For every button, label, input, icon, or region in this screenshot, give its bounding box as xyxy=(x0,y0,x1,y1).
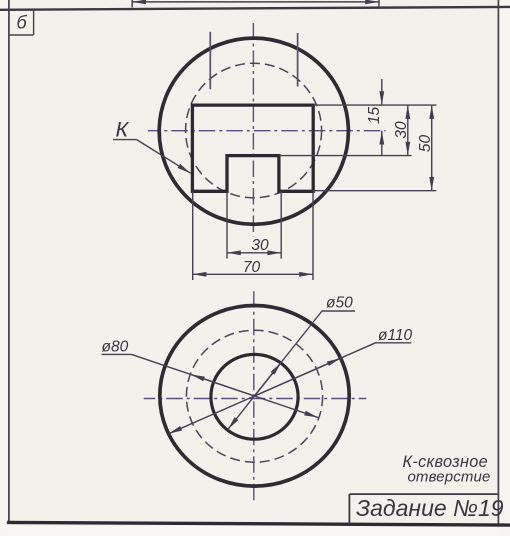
slot K outline (stepped through hole) xyxy=(192,105,313,191)
svg-text:70: 70 xyxy=(243,259,261,276)
ø80 upper arrow segment xyxy=(191,375,255,397)
dimension 30 line (right side) xyxy=(407,105,409,156)
dimension 30 line (bottom) xyxy=(227,252,281,254)
extension line from slot bottom edge xyxy=(313,190,436,192)
extension line from notch left edge xyxy=(226,191,228,258)
dimension 50 line xyxy=(431,105,433,191)
svg-text:15: 15 xyxy=(366,107,383,125)
variant label box "б" xyxy=(9,9,34,35)
frame right border xyxy=(497,0,499,524)
title box xyxy=(349,494,499,523)
svg-text:50: 50 xyxy=(417,135,434,153)
ø110 upper arrow segment xyxy=(255,358,341,396)
bottom view vertical centerline xyxy=(253,291,255,502)
svg-text:ø110: ø110 xyxy=(378,327,413,344)
front view vertical centerline xyxy=(252,23,254,237)
dimension 15 arrows (outside) xyxy=(381,79,383,156)
frame top border line xyxy=(0,7,510,10)
ø110 label underline xyxy=(375,342,411,344)
svg-text:отверстие: отверстие xyxy=(407,468,490,485)
cropped dimension line remnant at top xyxy=(132,0,379,7)
extension line from notch top edge xyxy=(279,155,412,157)
bottom view outer circle ø110 xyxy=(160,306,349,487)
bottom view dashed circle ø80 xyxy=(186,330,322,462)
extension line from notch right edge xyxy=(280,191,282,258)
svg-text:К: К xyxy=(116,117,130,141)
front view hidden circle ø80 (dashed) xyxy=(186,63,322,198)
svg-text:ø50: ø50 xyxy=(326,295,353,312)
ø50 label underline xyxy=(322,310,356,312)
ø110 dimension line xyxy=(169,343,376,434)
svg-text:ø80: ø80 xyxy=(102,339,129,356)
svg-text:б: б xyxy=(17,13,28,33)
label К leader arrow xyxy=(137,140,191,174)
paper margin outside frame xyxy=(0,526,510,536)
dimension 70 line xyxy=(193,273,313,275)
extension line from slot top edge xyxy=(313,104,436,106)
frame bottom border xyxy=(7,522,510,525)
label К underline xyxy=(113,139,137,141)
front view sphere outline circle xyxy=(159,38,348,224)
bottom view inner circle ø50 xyxy=(211,354,298,439)
frame left border xyxy=(8,0,10,523)
extension line from slot bottom-right corner xyxy=(312,191,314,280)
ø80 dimension line xyxy=(132,354,319,417)
svg-text:Задание №19: Задание №19 xyxy=(356,495,504,521)
svg-text:30: 30 xyxy=(251,237,269,254)
ø50 upper arrow segment xyxy=(255,363,282,396)
front view ø50 hole left edge line xyxy=(209,32,211,89)
front view ø50 hole right edge line xyxy=(297,33,299,87)
svg-text:30: 30 xyxy=(393,121,410,139)
bottom view horizontal centerline xyxy=(144,398,367,400)
extension line from slot bottom-left corner xyxy=(192,191,194,280)
ø50 dimension line xyxy=(228,311,322,429)
front view horizontal centerline xyxy=(148,130,386,132)
ø80 label underline xyxy=(102,353,132,355)
